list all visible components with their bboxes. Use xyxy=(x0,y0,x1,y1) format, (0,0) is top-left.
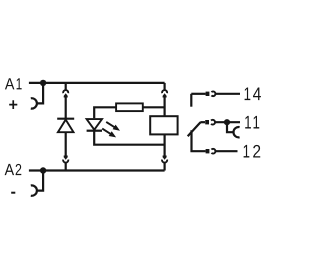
plug socket (bottom of diode branch) xyxy=(63,160,68,163)
junction dot node 11 xyxy=(224,119,230,125)
terminal label A2 xyxy=(5,164,22,175)
plus polarity mark xyxy=(9,100,17,109)
wire: diode to bottom plug xyxy=(65,132,67,156)
wire: stub below 14 corner xyxy=(190,94,192,107)
wire: plug to diode xyxy=(65,97,67,118)
minus polarity mark xyxy=(11,192,15,194)
LED cathode bar xyxy=(87,130,102,132)
plug socket (bottom of coil branch) xyxy=(162,160,167,163)
plug pin (bottom of diode branch) xyxy=(64,156,68,160)
clamp terminal A1 (cage clamp arc) xyxy=(31,98,37,108)
fixed contact crescent 14 xyxy=(211,91,215,96)
clamp terminal A2 (cage clamp arc) xyxy=(31,185,37,195)
diode V1 cathode bar xyxy=(57,118,74,120)
wire: plug to coil top xyxy=(164,97,166,116)
wire: node 11 clamp drop xyxy=(227,122,234,132)
plug pin (top of coil branch) xyxy=(163,93,167,97)
switch arm (changeover contact) xyxy=(188,122,201,136)
wire: crescent 11 to label xyxy=(215,121,240,123)
wire: right rail top segment xyxy=(164,83,166,91)
junction dot A2 xyxy=(40,167,46,173)
contact label 14 xyxy=(245,87,261,100)
wire: A2 lead and bottom rail xyxy=(29,169,165,171)
wire: left branch upper segment xyxy=(65,83,67,91)
plug socket (top of coil branch) xyxy=(162,90,167,93)
LED triangle (pointing down) xyxy=(87,119,102,130)
wire: arm to contact square 11 xyxy=(200,121,205,123)
clamp terminal 11 (cage clamp arc) xyxy=(233,127,239,137)
fixed contact crescent 11 xyxy=(211,120,215,125)
moving contact square 14 xyxy=(206,92,210,96)
contact label 11 xyxy=(245,116,259,129)
wire: LED branch top wire to resistor xyxy=(94,107,116,118)
wire: crescent 12 to label xyxy=(216,150,238,152)
wire: A1 lead and top rail xyxy=(29,82,165,84)
fixed contact crescent 12 xyxy=(211,149,215,154)
wire: contact 14 row xyxy=(191,93,205,95)
wire: LED to bottom wire, to right rail xyxy=(94,131,164,145)
junction dot A1 xyxy=(40,80,46,86)
LED light arrow 2 xyxy=(102,129,116,138)
wire: coil bottom to plug xyxy=(164,134,166,155)
plug pin (bottom of coil branch) xyxy=(163,156,167,160)
resistor R1 xyxy=(116,103,143,111)
plug pin (top of diode branch) xyxy=(64,93,68,97)
contact label 12 xyxy=(244,145,261,158)
plug socket (top of diode branch) xyxy=(63,90,68,93)
wire: socket to bottom rail xyxy=(65,162,67,170)
moving contact square 12 xyxy=(206,149,210,153)
moving contact square 11 xyxy=(205,120,209,124)
LED light arrow 1 xyxy=(106,122,120,131)
terminal label A1 xyxy=(5,78,22,89)
wire: socket to bottom rail xyxy=(164,162,166,170)
wire: vertical from arm to contact 12 row xyxy=(192,130,206,151)
relay coil K1 xyxy=(150,116,177,134)
wire: A2 clamp drop xyxy=(36,171,43,191)
diode V1 triangle (pointing up) xyxy=(58,120,74,133)
wire: resistor to right rail xyxy=(143,106,165,108)
wire: A1 clamp drop xyxy=(36,83,43,104)
wire: crescent 14 to label xyxy=(216,93,240,95)
